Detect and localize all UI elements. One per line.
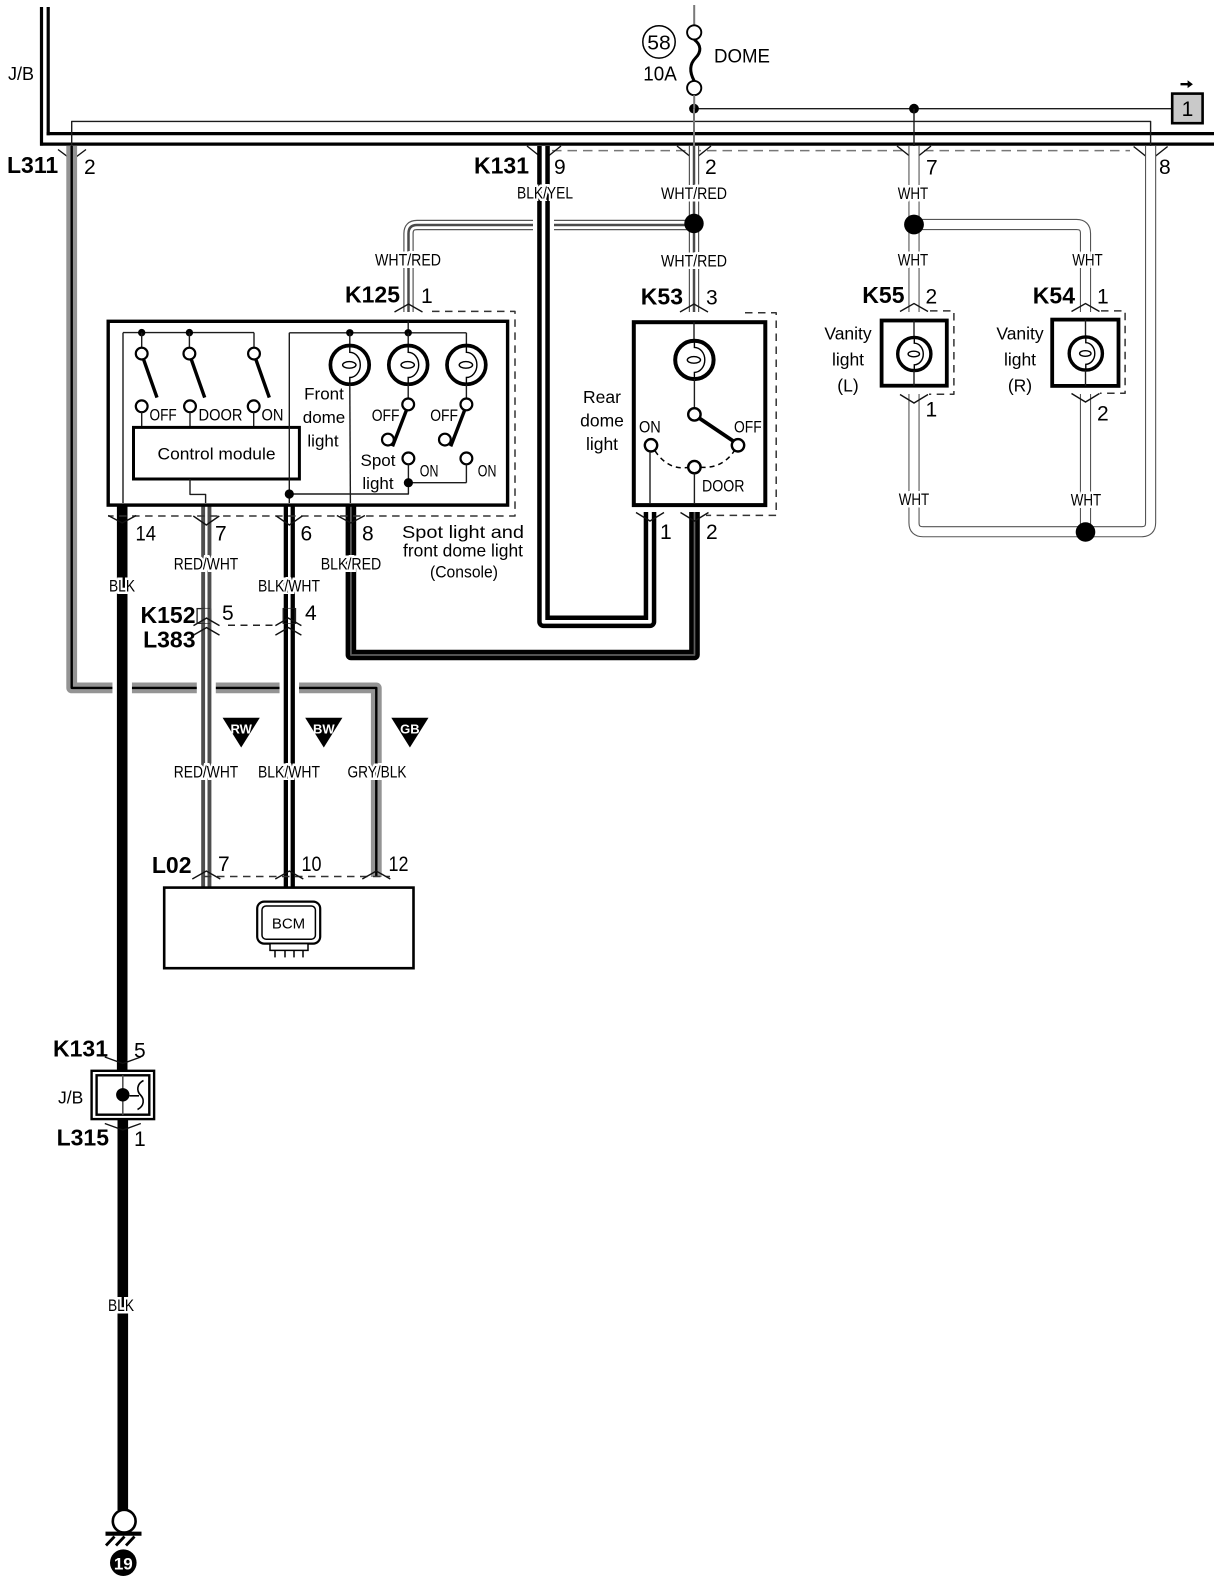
net marker triangle GB — [391, 718, 428, 748]
svg-text:DOME: DOME — [714, 46, 770, 67]
component box BCM — [164, 888, 413, 969]
svg-text:1: 1 — [926, 399, 938, 422]
wire BLK from K125-14 down to J/B K131-5 (white underlay at crossing) — [112, 670, 132, 704]
svg-text:light: light — [832, 349, 864, 369]
component box K125 (spot/front dome light console) — [108, 321, 507, 505]
svg-text:WHT/RED: WHT/RED — [661, 184, 727, 203]
pin 1 chevron of L315 — [105, 1124, 141, 1131]
svg-text:1: 1 — [1182, 98, 1194, 121]
svg-text:8: 8 — [362, 523, 374, 546]
svg-text:Vanity: Vanity — [824, 323, 872, 343]
svg-text:RW: RW — [230, 722, 252, 737]
svg-text:WHT: WHT — [1072, 251, 1103, 270]
lamp spot light left (bulb) — [389, 346, 428, 385]
wire internal top bus (lamp section) — [289, 332, 466, 334]
svg-text:(L): (L) — [837, 375, 858, 395]
svg-text:14: 14 — [136, 523, 157, 546]
switch spot light left (shown OFF) — [402, 399, 414, 411]
svg-text:BLK: BLK — [108, 1296, 135, 1315]
svg-text:1: 1 — [134, 1128, 146, 1151]
switch OFF (slide switch position 1) — [141, 333, 143, 348]
wire WHT branch right to K54-1 — [914, 225, 1086, 313]
wire RED/WHT from K125-7 down to BCM L02-7 (white underlay at crossing) — [197, 670, 216, 704]
svg-text:58: 58 — [647, 31, 671, 54]
pin 4 chevrons (K152/L383) on BLK/WHT wire — [275, 618, 301, 626]
svg-text:BLK: BLK — [109, 577, 136, 596]
svg-text:7: 7 — [926, 157, 938, 180]
svg-text:(R): (R) — [1008, 375, 1032, 395]
pin 9 chevron of K131 — [527, 146, 561, 160]
svg-text:2: 2 — [926, 286, 938, 309]
svg-text:OFF: OFF — [430, 407, 458, 425]
svg-text:12: 12 — [389, 853, 409, 876]
svg-text:light: light — [1004, 349, 1036, 369]
wire front dome light to pin 8 — [349, 384, 352, 503]
fuse 58 10A DOME (circle-squiggle-circle symbol) — [687, 25, 701, 39]
node dot front dome lamp feed — [346, 329, 353, 336]
connector K125 dashed outline — [108, 311, 515, 516]
component box K55 (vanity light L) — [882, 321, 947, 386]
svg-text:WHT/RED: WHT/RED — [661, 252, 727, 271]
svg-text:GB: GB — [400, 722, 420, 737]
svg-text:RED/WHT: RED/WHT — [174, 763, 239, 782]
svg-text:ON: ON — [478, 463, 497, 481]
wire J/B internal: fuse drop to pin 2 — [693, 109, 695, 146]
lamp rear dome light (bulb) — [675, 341, 713, 379]
svg-text:OFF: OFF — [734, 417, 762, 436]
wire spot switch ON bus to pin 6 — [289, 483, 408, 494]
wire DOOR contact to pin 2 — [693, 473, 695, 503]
wire WHT/RED from K131-2 down to K53-3 (vertical) — [689, 146, 699, 312]
svg-text:L02: L02 — [152, 852, 192, 878]
wire BLK/RED from K125-8 down, right, up to K53-2 — [351, 505, 695, 655]
connector K53 dashed outline — [706, 313, 776, 516]
svg-text:Control module: Control module — [158, 445, 276, 463]
wire BLK/YEL from K131-9 down, right, up to K53-1 (crosses WHT/RED) — [533, 212, 554, 238]
node junction dot WHT (914,224.5) — [904, 215, 924, 235]
connector K152/L383 socket on RED/WHT wire — [197, 609, 209, 624]
page link box 1 — [1172, 94, 1202, 124]
wire from control module to pin 7 — [190, 479, 206, 503]
svg-text:K53: K53 — [641, 284, 683, 310]
net marker triangle RW — [223, 718, 260, 748]
svg-text:GRY/BLK: GRY/BLK — [348, 763, 408, 782]
node junction dot at fuse output (694,108.7) — [689, 104, 699, 114]
svg-text:Front: Front — [304, 385, 344, 404]
pin 7 chevron of K131 — [897, 146, 931, 160]
contact OFF (K53) — [732, 439, 744, 451]
wire spot lamp right to switch — [465, 384, 467, 398]
svg-text:OFF: OFF — [372, 407, 400, 425]
svg-text:WHT/RED: WHT/RED — [375, 251, 441, 270]
node dot spot lamp feed — [405, 329, 412, 336]
node dot inside J/B box — [116, 1088, 129, 1101]
svg-text:K55: K55 — [862, 282, 904, 308]
lamp vanity light L (bulb) — [898, 337, 931, 370]
pin 2 chevron of K55 — [900, 304, 928, 312]
BCM icon (module with pins) — [257, 902, 320, 944]
wire bus to spot bulb left — [407, 333, 409, 346]
node dot switch1 feed — [138, 329, 145, 336]
svg-text:L383: L383 — [143, 627, 195, 653]
pin 6 chevron of K125 — [276, 516, 302, 525]
net marker triangle BW — [305, 718, 342, 748]
lamp spot light right (bulb) — [447, 346, 486, 385]
svg-text:(Console): (Console) — [430, 563, 498, 582]
junction block J/B bus (vertical double line, top left) — [40, 7, 43, 146]
pin 12 chevron of L02 — [362, 871, 390, 879]
svg-text:1: 1 — [421, 285, 433, 308]
svg-text:2: 2 — [1097, 403, 1109, 426]
node junction dot at (914,108.7) — [909, 104, 919, 114]
svg-text:dome: dome — [303, 408, 346, 427]
wire BLK/WHT from K125-6 down to BCM L02-10 (white underlay at crossing) — [280, 670, 300, 704]
svg-text:front dome light: front dome light — [403, 541, 523, 561]
svg-text:5: 5 — [222, 602, 234, 625]
control module box — [134, 427, 300, 479]
switch ON (slide switch position 3) — [253, 333, 255, 348]
svg-text:L315: L315 — [57, 1125, 110, 1151]
label fuse number 58 (circled) — [643, 26, 675, 58]
svg-text:WHT: WHT — [898, 184, 929, 203]
svg-text:DOOR: DOOR — [702, 477, 745, 496]
pin 1 chevron of K55 — [900, 395, 928, 404]
svg-text:2: 2 — [705, 156, 717, 179]
wire fuse supply from top edge — [693, 5, 695, 26]
svg-text:K54: K54 — [1033, 283, 1075, 309]
wire J/B internal: fuse feed line (y=108.7) from fuse to page link 1 — [694, 108, 1172, 110]
svg-text:19: 19 — [114, 1555, 133, 1574]
svg-text:DOOR: DOOR — [199, 407, 243, 425]
J/B internal squiggle symbol — [130, 1095, 140, 1097]
wire K53 pin3 to bulb — [693, 322, 695, 341]
svg-text:BLK/WHT: BLK/WHT — [258, 577, 320, 596]
svg-text:2: 2 — [84, 156, 96, 179]
svg-text:Vanity: Vanity — [996, 323, 1044, 343]
svg-text:10: 10 — [302, 853, 322, 876]
wire through J/B box — [122, 1075, 124, 1114]
svg-text:L311: L311 — [7, 152, 58, 178]
svg-text:7: 7 — [215, 523, 227, 546]
connector K55 dashed outline — [929, 311, 954, 394]
node dot switch2 feed — [186, 329, 193, 336]
connector K54 dashed outline — [1100, 311, 1125, 393]
svg-text:light: light — [307, 432, 338, 451]
ground number 19 (filled circle) — [110, 1549, 137, 1576]
switch rear dome light pivot — [688, 408, 700, 420]
svg-text:RED/WHT: RED/WHT — [174, 555, 239, 574]
junction block J/B box (double rectangle) — [92, 1071, 155, 1119]
svg-text:J/B: J/B — [8, 64, 34, 84]
node dot pin6 tie — [285, 489, 294, 498]
wire spot lamp left to switch — [407, 384, 409, 398]
pin 8 chevron of K125 — [337, 516, 365, 524]
wire K55 internal feed — [913, 321, 915, 339]
pin 2 chevron of K53 — [681, 513, 709, 522]
svg-text:4: 4 — [305, 602, 317, 625]
pin 7 chevron of K125 — [193, 516, 219, 525]
wire K54 internal return — [1085, 370, 1087, 386]
svg-text:K152: K152 — [141, 602, 196, 628]
wire bus to front dome bulb — [349, 333, 351, 346]
svg-text:BLK/RED: BLK/RED — [321, 555, 382, 574]
pin 2 chevron of K131 — [677, 146, 711, 160]
pin 1 chevron of K54 — [1072, 304, 1100, 312]
wire GRY/BLK from L311-2 down, right, down to BCM L02-12 — [72, 146, 377, 877]
svg-text:5: 5 — [134, 1040, 146, 1063]
connector L02 dashed line — [204, 876, 390, 878]
svg-text:WHT: WHT — [899, 490, 930, 509]
pin 3 chevron of K53 — [680, 304, 708, 312]
svg-text:9: 9 — [554, 156, 566, 179]
ground symbol (circle, bar, hatches) — [113, 1510, 136, 1533]
svg-text:Rear: Rear — [583, 387, 621, 407]
switch spot light right (shown OFF) — [461, 399, 473, 411]
svg-text:BLK/YEL: BLK/YEL — [517, 184, 573, 203]
connector K152/L383 socket on BLK/WHT wire — [283, 609, 295, 624]
svg-text:Spot: Spot — [361, 451, 396, 470]
svg-text:J/B: J/B — [58, 1088, 83, 1108]
wire bulb to switch pivot — [693, 379, 695, 409]
switch blade to OFF — [700, 418, 735, 441]
svg-text:light: light — [362, 474, 393, 493]
svg-text:light: light — [586, 434, 618, 454]
wire BLK from J/B to ground — [118, 1119, 129, 1510]
pin 2 chevron of L311 — [58, 150, 86, 161]
pin 7 chevron of L02 — [192, 871, 220, 879]
svg-text:BW: BW — [313, 722, 335, 737]
wire ON contact to pin 1 — [649, 452, 651, 504]
svg-text:K131: K131 — [474, 153, 529, 179]
wire J/B internal: drop to pin 7 — [913, 109, 915, 160]
wire WHT from K131-7 down to K55-2 — [908, 146, 919, 312]
svg-text:ON: ON — [420, 463, 439, 481]
switch DOOR (slide switch position 2) — [188, 333, 190, 348]
svg-text:ON: ON — [262, 407, 284, 425]
svg-text:ON: ON — [639, 417, 661, 436]
svg-text:BCM: BCM — [272, 916, 305, 933]
pin 8 chevron of K131 — [1134, 147, 1168, 161]
svg-text:1: 1 — [660, 521, 672, 544]
wire J/B internal: return line (y=121.4) from L311-2 to K131-8 — [72, 121, 1151, 160]
svg-text:1: 1 — [1097, 286, 1109, 309]
wire WHT from K55-1 down, right, up to K131-8 — [914, 146, 1151, 532]
svg-text:Spot light and: Spot light and — [402, 522, 524, 542]
pin 2 chevron of K54 — [1072, 394, 1100, 403]
svg-text:3: 3 — [706, 287, 718, 310]
connector K152/L383 dashed tie line — [228, 624, 275, 626]
lamp front dome light (bulb) — [330, 346, 369, 385]
wire K54 internal feed — [1085, 320, 1087, 338]
contact ON (K53) — [645, 439, 657, 451]
svg-text:2: 2 — [706, 521, 718, 544]
svg-text:6: 6 — [301, 523, 313, 546]
svg-text:8: 8 — [1159, 156, 1171, 179]
svg-text:K125: K125 — [345, 282, 400, 308]
svg-text:7: 7 — [218, 853, 230, 876]
connector K131 dashed line — [552, 150, 1130, 152]
svg-text:10A: 10A — [643, 64, 677, 86]
wire K55 internal return — [913, 371, 915, 386]
svg-text:dome: dome — [580, 411, 624, 431]
wire WHT from K54-2 down to junction — [1080, 394, 1091, 532]
junction block J/B bus (horizontal double line) — [47, 132, 1214, 135]
dashed arc of rotary switch K53 — [655, 451, 735, 468]
wire internal top bus (left section) — [123, 332, 254, 334]
node junction dot WHT (1085.5,532) — [1076, 522, 1096, 542]
wire bus to spot bulb right — [465, 333, 467, 346]
svg-text:BLK/WHT: BLK/WHT — [258, 763, 320, 782]
page link arrow (to other sheet) — [1181, 80, 1193, 88]
wire WHT/RED horizontal from junction to K125-1 — [409, 225, 695, 312]
node dot ON bus — [404, 478, 413, 487]
pin 1 chevron of K53 — [636, 513, 664, 522]
node junction dot WHT/RED (694,223.5) — [684, 214, 703, 233]
component box K54 (vanity light R) — [1052, 320, 1118, 386]
pin 1 chevron of K125 — [395, 304, 423, 312]
svg-text:OFF: OFF — [150, 407, 177, 425]
pin 5 chevron of K131 lower — [105, 1057, 141, 1064]
lamp vanity light R (bulb) — [1069, 337, 1102, 370]
component box K53 (rear dome light) — [634, 322, 766, 505]
svg-text:K131: K131 — [53, 1036, 108, 1062]
contact DOOR (K53) — [688, 461, 700, 473]
pin 5 chevrons (K152/L383) on RED/WHT wire — [194, 618, 220, 626]
svg-text:WHT: WHT — [898, 251, 929, 270]
pin 10 chevron of L02 — [275, 871, 303, 879]
pin 14 chevron of K125 — [108, 516, 136, 524]
svg-text:WHT: WHT — [1071, 491, 1102, 510]
